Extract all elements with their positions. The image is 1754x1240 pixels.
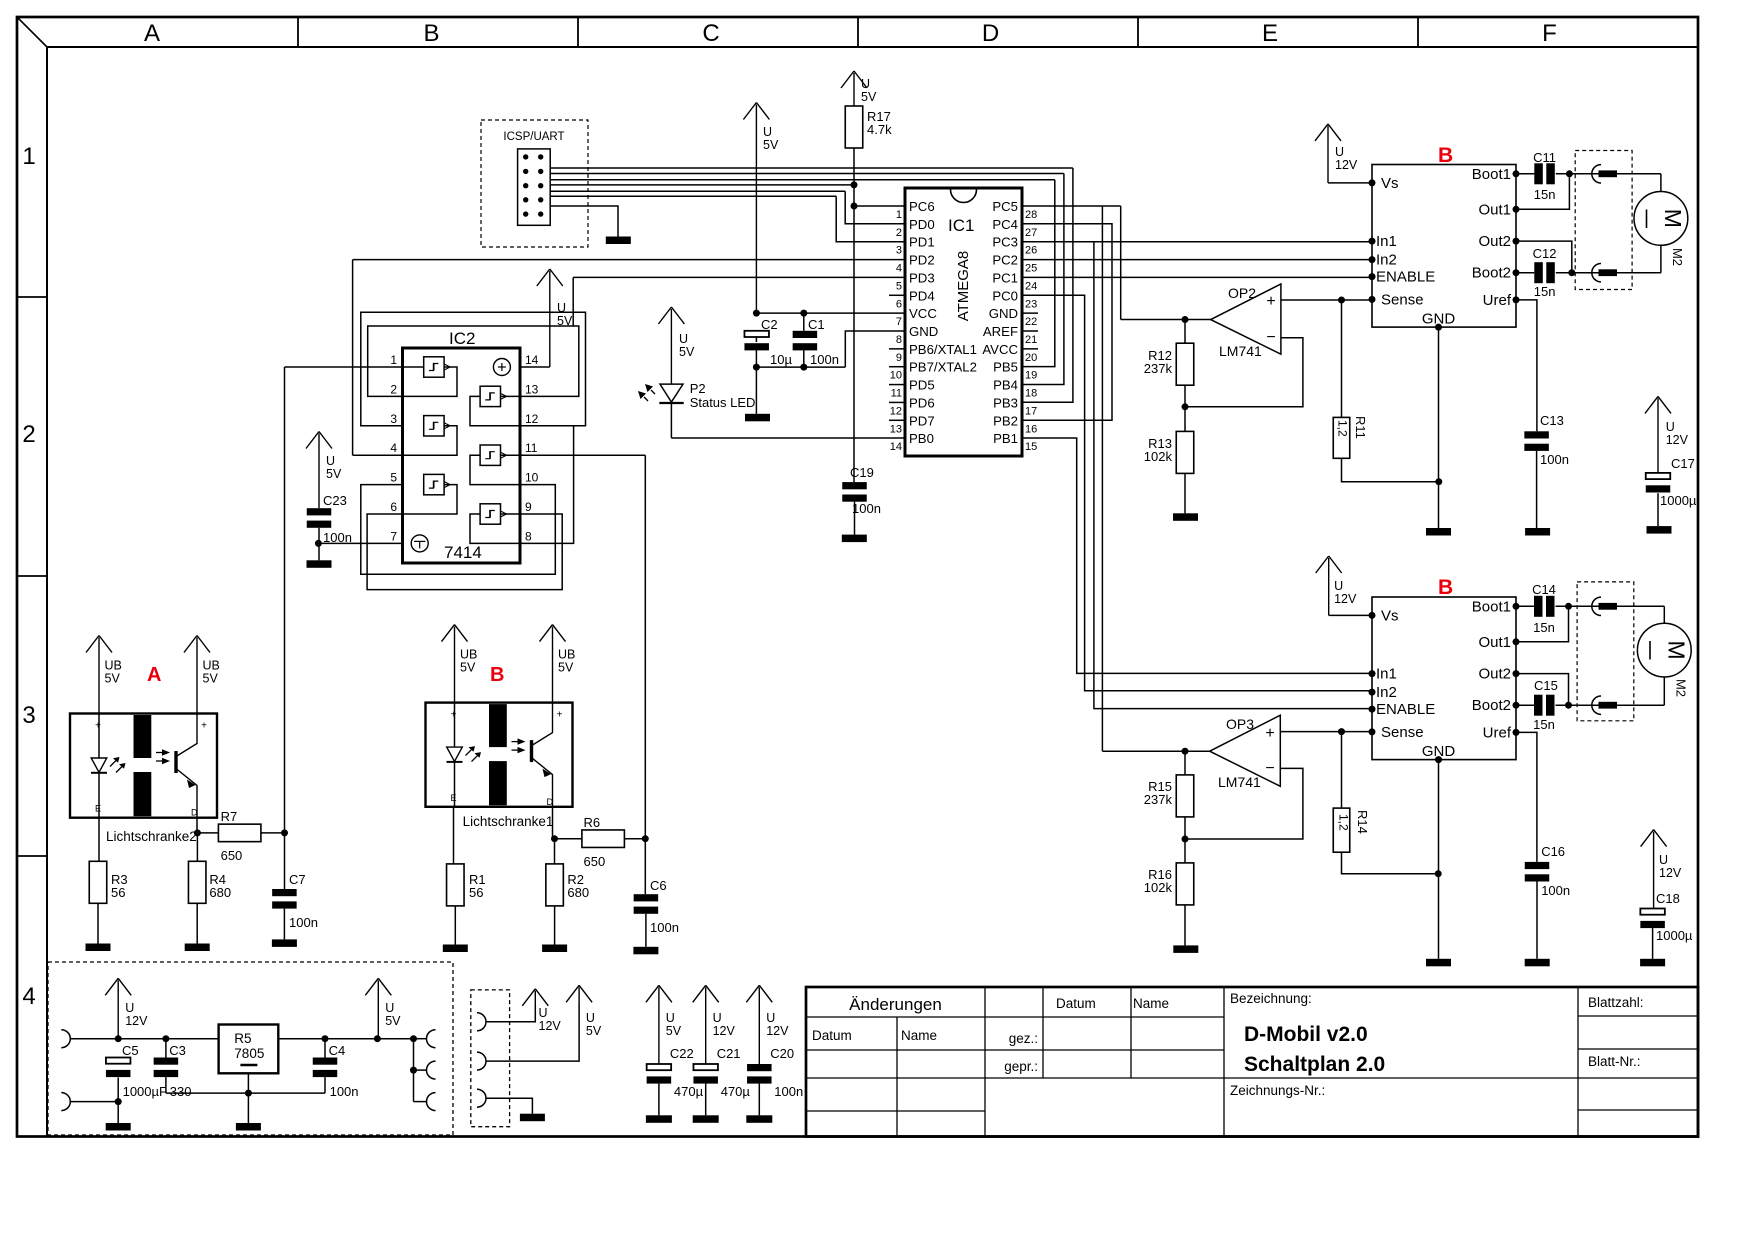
svg-text:ICSP/UART: ICSP/UART (503, 131, 564, 143)
svg-text:In1: In1 (1376, 233, 1397, 250)
svg-text:330: 330 (170, 1084, 192, 1099)
svg-text:U: U (1659, 853, 1668, 867)
svg-text:Datum: Datum (812, 1028, 852, 1043)
svg-text:100n: 100n (774, 1084, 803, 1099)
svg-text:5V: 5V (105, 672, 121, 686)
svg-text:PD7: PD7 (909, 413, 935, 428)
svg-text:15n: 15n (1533, 620, 1555, 635)
svg-text:Sense: Sense (1381, 724, 1424, 741)
svg-text:B: B (490, 664, 504, 686)
svg-text:E: E (1262, 20, 1278, 47)
svg-text:C1: C1 (808, 317, 825, 332)
svg-text:+: + (201, 721, 207, 732)
svg-text:Lichtschranke2: Lichtschranke2 (106, 829, 197, 844)
svg-text:Status LED: Status LED (690, 395, 756, 410)
svg-text:3: 3 (22, 702, 35, 729)
svg-text:7: 7 (390, 529, 397, 543)
svg-text:C12: C12 (1533, 246, 1557, 261)
svg-text:102k: 102k (1144, 449, 1173, 464)
svg-text:1,2: 1,2 (1337, 814, 1351, 831)
svg-text:+: + (557, 710, 563, 721)
svg-text:Out2: Out2 (1478, 666, 1511, 683)
svg-text:Bezeichnung:: Bezeichnung: (1230, 991, 1312, 1006)
svg-text:M2: M2 (1673, 679, 1688, 697)
svg-text:22: 22 (1025, 316, 1037, 328)
svg-text:12: 12 (525, 412, 539, 426)
svg-text:Schaltplan 2.0: Schaltplan 2.0 (1244, 1053, 1385, 1076)
svg-text:P2: P2 (690, 381, 706, 396)
svg-text:U: U (326, 454, 335, 468)
svg-text:12V: 12V (1659, 866, 1682, 880)
svg-text:AREF: AREF (983, 324, 1018, 339)
svg-text:237k: 237k (1144, 361, 1173, 376)
svg-text:A: A (144, 20, 160, 47)
svg-text:−: − (1265, 760, 1274, 777)
svg-text:10: 10 (525, 471, 539, 485)
svg-text:PB6/XTAL1: PB6/XTAL1 (909, 342, 977, 357)
svg-text:650: 650 (221, 848, 243, 863)
svg-text:C20: C20 (770, 1046, 794, 1061)
svg-text:15: 15 (1025, 441, 1037, 453)
svg-text:Boot2: Boot2 (1472, 265, 1511, 282)
svg-text:PB1: PB1 (993, 431, 1018, 446)
svg-text:C: C (702, 20, 719, 47)
svg-text:1000µ: 1000µ (1656, 928, 1693, 943)
svg-text:U: U (385, 1001, 394, 1015)
svg-text:18: 18 (1025, 388, 1037, 400)
svg-text:PB4: PB4 (993, 378, 1018, 393)
svg-text:13: 13 (525, 382, 539, 396)
svg-text:28: 28 (1025, 209, 1037, 221)
svg-text:+: + (451, 710, 457, 721)
svg-text:C3: C3 (169, 1043, 186, 1058)
svg-text:12V: 12V (1666, 433, 1689, 447)
svg-text:A: A (147, 664, 161, 686)
svg-text:11: 11 (891, 388, 902, 400)
svg-text:UB: UB (460, 648, 477, 662)
svg-text:12V: 12V (1334, 592, 1357, 606)
svg-text:U: U (679, 332, 688, 346)
svg-text:26: 26 (1025, 245, 1037, 257)
svg-text:B: B (1438, 576, 1453, 599)
svg-text:U: U (125, 1001, 134, 1015)
svg-text:LM741: LM741 (1218, 774, 1261, 790)
svg-text:4.7k: 4.7k (867, 122, 892, 137)
svg-text:−: − (1266, 329, 1275, 346)
svg-text:5: 5 (896, 280, 902, 292)
svg-text:10: 10 (890, 370, 902, 382)
svg-text:PD0: PD0 (909, 217, 935, 232)
svg-text:12V: 12V (1335, 158, 1358, 172)
svg-text:GND: GND (1422, 311, 1456, 328)
svg-text:3: 3 (896, 245, 902, 257)
svg-text:C17: C17 (1671, 456, 1695, 471)
svg-text:C23: C23 (323, 493, 347, 508)
svg-text:B: B (423, 20, 439, 47)
svg-text:C4: C4 (329, 1043, 346, 1058)
svg-text:7805: 7805 (234, 1046, 264, 1061)
svg-text:PB3: PB3 (993, 395, 1018, 410)
svg-text:4: 4 (390, 441, 397, 455)
svg-text:5V: 5V (763, 138, 779, 152)
svg-text:Lichtschranke1: Lichtschranke1 (463, 814, 554, 829)
svg-text:C21: C21 (717, 1046, 741, 1061)
svg-text:9: 9 (896, 352, 902, 364)
svg-text:Sense: Sense (1381, 291, 1424, 308)
svg-text:Uref: Uref (1483, 292, 1512, 309)
svg-text:5V: 5V (326, 467, 342, 481)
svg-text:680: 680 (209, 885, 231, 900)
svg-text:14: 14 (525, 353, 539, 367)
svg-text:1000µ: 1000µ (1660, 493, 1697, 508)
svg-text:C6: C6 (650, 878, 667, 893)
svg-text:PB5: PB5 (993, 360, 1018, 375)
svg-text:C16: C16 (1541, 844, 1565, 859)
svg-text:100n: 100n (650, 920, 679, 935)
svg-text:R6: R6 (584, 815, 601, 830)
svg-text:5V: 5V (666, 1024, 682, 1038)
svg-text:U: U (861, 77, 870, 91)
svg-text:PD1: PD1 (909, 235, 935, 250)
svg-text:15n: 15n (1534, 187, 1556, 202)
svg-text:+: + (1265, 725, 1274, 742)
svg-text:Vs: Vs (1381, 175, 1399, 192)
svg-text:PC2: PC2 (992, 253, 1018, 268)
svg-text:5V: 5V (203, 672, 219, 686)
svg-text:U: U (1335, 145, 1344, 159)
svg-text:IC1: IC1 (948, 216, 974, 235)
svg-text:gepr.:: gepr.: (1004, 1059, 1038, 1074)
svg-text:R11: R11 (1353, 416, 1368, 439)
svg-text:D: D (191, 808, 198, 818)
svg-text:680: 680 (567, 885, 589, 900)
svg-text:12V: 12V (125, 1014, 148, 1028)
svg-text:8: 8 (896, 334, 902, 346)
svg-text:C15: C15 (1534, 678, 1558, 693)
svg-text:5V: 5V (679, 345, 695, 359)
svg-text:24: 24 (1025, 280, 1037, 292)
svg-text:Name: Name (1133, 996, 1169, 1011)
svg-text:Out1: Out1 (1478, 634, 1511, 651)
svg-text:6: 6 (896, 298, 902, 310)
svg-text:23: 23 (1025, 298, 1037, 310)
svg-text:R5: R5 (234, 1031, 251, 1046)
svg-text:Zeichnungs-Nr.:: Zeichnungs-Nr.: (1230, 1083, 1325, 1098)
svg-text:PB7/XTAL2: PB7/XTAL2 (909, 360, 977, 375)
svg-text:2: 2 (896, 227, 902, 239)
svg-text:100n: 100n (330, 1084, 359, 1099)
svg-text:PC0: PC0 (992, 288, 1018, 303)
svg-text:AVCC: AVCC (982, 342, 1018, 357)
svg-text:100n: 100n (323, 530, 352, 545)
svg-text:5V: 5V (861, 90, 877, 104)
svg-text:5V: 5V (385, 1014, 401, 1028)
svg-text:Out1: Out1 (1478, 201, 1511, 218)
svg-text:100n: 100n (1541, 883, 1570, 898)
svg-text:R7: R7 (221, 809, 238, 824)
svg-text:Name: Name (901, 1028, 937, 1043)
svg-text:C11: C11 (1533, 150, 1556, 165)
svg-text:12V: 12V (539, 1019, 562, 1033)
svg-text:1000µF: 1000µF (123, 1084, 167, 1099)
svg-text:11: 11 (525, 441, 538, 455)
svg-text:E: E (451, 793, 457, 803)
svg-text:U: U (766, 1011, 775, 1025)
svg-text:1: 1 (390, 353, 397, 367)
svg-text:OP2: OP2 (1228, 285, 1256, 301)
svg-text:650: 650 (584, 854, 606, 869)
svg-text:E: E (95, 804, 101, 814)
svg-text:21: 21 (1025, 334, 1037, 346)
svg-text:12V: 12V (713, 1024, 736, 1038)
svg-text:In2: In2 (1376, 684, 1397, 701)
svg-text:ENABLE: ENABLE (1376, 269, 1435, 286)
svg-text:25: 25 (1025, 263, 1037, 275)
svg-text:17: 17 (1025, 405, 1037, 417)
svg-text:U: U (539, 1006, 548, 1020)
svg-text:M: M (1663, 641, 1689, 660)
svg-text:7: 7 (896, 316, 902, 328)
svg-text:14: 14 (890, 441, 902, 453)
svg-text:237k: 237k (1144, 792, 1173, 807)
svg-text:In2: In2 (1376, 252, 1397, 269)
svg-text:ENABLE: ENABLE (1376, 701, 1435, 718)
svg-text:GND: GND (1422, 743, 1456, 760)
svg-text:IC2: IC2 (449, 329, 475, 348)
svg-text:PC3: PC3 (992, 235, 1018, 250)
svg-text:3: 3 (390, 412, 397, 426)
svg-text:56: 56 (111, 885, 125, 900)
svg-text:C7: C7 (289, 872, 306, 887)
svg-text:Boot2: Boot2 (1472, 697, 1511, 714)
svg-text:In1: In1 (1376, 666, 1397, 683)
svg-text:Vs: Vs (1381, 607, 1399, 624)
svg-text:102k: 102k (1144, 880, 1173, 895)
svg-text:100n: 100n (810, 352, 839, 367)
svg-text:7414: 7414 (444, 543, 482, 562)
svg-text:Out2: Out2 (1478, 233, 1511, 250)
svg-text:100n: 100n (852, 501, 881, 516)
svg-text:GND: GND (909, 324, 938, 339)
svg-text:9: 9 (525, 500, 532, 514)
svg-text:10µ: 10µ (770, 352, 792, 367)
svg-text:PD3: PD3 (909, 270, 935, 285)
svg-text:PD2: PD2 (909, 253, 935, 268)
svg-text:PD6: PD6 (909, 395, 935, 410)
svg-text:Boot1: Boot1 (1472, 598, 1511, 615)
svg-text:VCC: VCC (909, 306, 937, 321)
svg-text:PB0: PB0 (909, 431, 934, 446)
svg-text:56: 56 (469, 885, 483, 900)
svg-text:PB2: PB2 (993, 413, 1018, 428)
svg-text:PC4: PC4 (992, 217, 1018, 232)
svg-text:1: 1 (896, 209, 902, 221)
svg-text:B: B (1438, 144, 1453, 167)
svg-text:PC1: PC1 (992, 270, 1018, 285)
svg-text:5V: 5V (558, 661, 574, 675)
svg-text:5: 5 (390, 471, 397, 485)
svg-text:Blattzahl:: Blattzahl: (1588, 995, 1644, 1010)
svg-text:6: 6 (390, 500, 397, 514)
svg-text:C19: C19 (850, 465, 874, 480)
svg-text:8: 8 (525, 529, 532, 543)
svg-text:2: 2 (22, 421, 35, 448)
svg-text:12: 12 (890, 405, 902, 417)
svg-text:19: 19 (1025, 370, 1037, 382)
svg-text:M: M (1660, 209, 1686, 228)
svg-text:UB: UB (105, 659, 122, 673)
svg-text:GND: GND (989, 306, 1018, 321)
svg-text:U: U (666, 1011, 675, 1025)
svg-text:20: 20 (1025, 352, 1037, 364)
svg-text:15n: 15n (1533, 717, 1555, 732)
svg-text:100n: 100n (289, 915, 318, 930)
svg-text:C18: C18 (1656, 891, 1680, 906)
svg-text:D: D (547, 797, 554, 807)
svg-text:+: + (95, 721, 101, 732)
svg-text:16: 16 (1025, 423, 1037, 435)
svg-text:470µ: 470µ (674, 1084, 704, 1099)
svg-text:F: F (1542, 20, 1557, 47)
svg-text:PC5: PC5 (992, 199, 1018, 214)
svg-text:C13: C13 (1540, 413, 1564, 428)
svg-text:12V: 12V (766, 1024, 789, 1038)
svg-text:D: D (982, 20, 999, 47)
svg-text:D-Mobil v2.0: D-Mobil v2.0 (1244, 1023, 1368, 1046)
svg-text:C14: C14 (1532, 582, 1556, 597)
svg-text:PD5: PD5 (909, 378, 935, 393)
svg-text:2: 2 (390, 382, 397, 396)
svg-text:U: U (1334, 579, 1343, 593)
svg-text:ATMEGA8: ATMEGA8 (955, 251, 972, 322)
svg-text:PC6: PC6 (909, 199, 935, 214)
svg-text:U: U (763, 125, 772, 139)
svg-text:OP3: OP3 (1226, 716, 1254, 732)
svg-text:Änderungen: Änderungen (849, 995, 942, 1014)
svg-text:LM741: LM741 (1219, 343, 1262, 359)
svg-text:4: 4 (896, 263, 902, 275)
svg-text:4: 4 (22, 983, 35, 1010)
svg-text:5V: 5V (586, 1024, 602, 1038)
svg-text:470µ: 470µ (721, 1084, 751, 1099)
svg-text:C2: C2 (761, 317, 778, 332)
svg-text:Blatt-Nr.:: Blatt-Nr.: (1588, 1054, 1641, 1069)
svg-text:5V: 5V (460, 661, 476, 675)
svg-text:+: + (1266, 293, 1275, 310)
svg-text:1,2: 1,2 (1336, 420, 1350, 437)
svg-text:Uref: Uref (1483, 724, 1512, 741)
svg-text:Boot1: Boot1 (1472, 166, 1511, 183)
svg-text:U: U (1666, 420, 1675, 434)
svg-text:UB: UB (203, 659, 220, 673)
svg-text:C22: C22 (670, 1046, 694, 1061)
svg-text:Datum: Datum (1056, 996, 1096, 1011)
svg-text:100n: 100n (1540, 452, 1569, 467)
svg-text:PD4: PD4 (909, 288, 935, 303)
svg-text:27: 27 (1025, 227, 1037, 239)
svg-text:1: 1 (22, 143, 35, 170)
svg-text:U: U (586, 1011, 595, 1025)
svg-text:R14: R14 (1355, 810, 1370, 834)
svg-text:UB: UB (558, 648, 575, 662)
svg-text:15n: 15n (1534, 284, 1556, 299)
svg-text:13: 13 (890, 423, 902, 435)
svg-text:U: U (713, 1011, 722, 1025)
svg-text:gez.:: gez.: (1009, 1031, 1038, 1046)
svg-text:C5: C5 (122, 1043, 139, 1058)
svg-text:M2: M2 (1670, 248, 1685, 266)
